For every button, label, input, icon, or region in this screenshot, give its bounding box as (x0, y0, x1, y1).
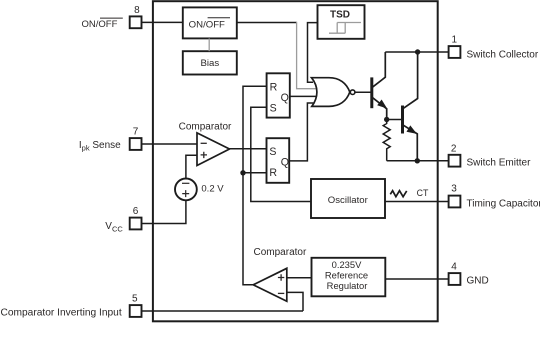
svg-text:5: 5 (132, 294, 138, 305)
Bias block (183, 51, 237, 74)
wire comparator2 plus to reference (287, 277, 312, 279)
Oscillator box (311, 179, 385, 218)
wire 0.2V to comparator plus (186, 155, 197, 178)
svg-text:Bias: Bias (200, 58, 219, 69)
Q1 emitter (373, 98, 387, 120)
0.2 V source V1 (175, 179, 197, 201)
svg-text:Q: Q (281, 92, 289, 104)
svg-text:ON/OFF: ON/OFF (82, 19, 118, 30)
wire reference to pin 4 (385, 278, 448, 280)
wire Q2 collector (403, 52, 417, 108)
wire TSD to gate (308, 23, 318, 83)
svg-text:R: R (270, 81, 278, 93)
svg-text:CT: CT (417, 188, 429, 198)
svg-text:Q: Q (281, 157, 289, 169)
svg-text:Switch Collector: Switch Collector (467, 49, 539, 60)
svg-text:3: 3 (451, 183, 457, 194)
wire oscillator to pin 3 (385, 201, 449, 203)
source plus (182, 190, 189, 197)
latch 1 (R Q S) box (267, 73, 290, 117)
wire pin8 to ON/OFF block (142, 21, 183, 23)
comparator 2 triangle (253, 268, 287, 301)
svg-text:4: 4 (451, 262, 457, 273)
svg-text:8: 8 (134, 5, 140, 16)
comparator2 plus (278, 274, 284, 280)
svg-text:S: S (269, 146, 276, 158)
overline over block OFF (208, 17, 230, 19)
pin 3 square (449, 196, 461, 208)
TSD hysteresis symbol (329, 23, 361, 34)
nor gate bubble (350, 90, 355, 95)
svg-text:Oscillator: Oscillator (328, 195, 369, 206)
wire R chain (243, 86, 267, 285)
wire gate output to Q1 base (355, 91, 372, 93)
pin 1 square (449, 46, 461, 58)
gray wire ON/OFF to gate (297, 22, 317, 89)
gray connector ON/OFF to Bias (208, 38, 210, 51)
svg-text:Regulator: Regulator (327, 280, 368, 291)
pin 7 square (130, 138, 142, 150)
wire comparator1 output to latch2 S (230, 148, 267, 150)
source minus (182, 182, 189, 184)
wire latch2 Q to gate (289, 103, 313, 161)
collector rail to pin 1 (385, 51, 448, 53)
Reference Regulator box (312, 258, 386, 297)
wire base Q2 (387, 119, 403, 121)
comparator1 minus (201, 142, 207, 144)
comparator1 plus (201, 152, 207, 158)
svg-text:0.2 V: 0.2 V (201, 184, 224, 195)
svg-text:ON/OFF: ON/OFF (189, 19, 225, 30)
overline over OFF (100, 17, 123, 19)
Q2 emitter arrow (407, 125, 417, 133)
Q1 collector (373, 52, 386, 87)
svg-text:Comparator Inverting Input: Comparator Inverting Input (1, 307, 122, 318)
TSD block (318, 5, 365, 39)
junction dot collector rail (415, 49, 420, 54)
svg-text:7: 7 (133, 127, 139, 138)
wire latch1 Q to gate (290, 95, 317, 97)
svg-text:R: R (269, 167, 277, 179)
emitter rail to pin 2 (387, 160, 449, 162)
svg-text:GND: GND (467, 276, 489, 287)
svg-text:TSD: TSD (330, 10, 350, 21)
pin 8 square (130, 16, 142, 28)
comparator 1 triangle (197, 133, 230, 166)
wire comparator2 minus to pin5 line (287, 292, 303, 311)
svg-text:Comparator: Comparator (254, 247, 307, 258)
pin 6 square (130, 218, 142, 230)
wire source to Vcc line (142, 200, 186, 223)
svg-text:Switch Emitter: Switch Emitter (467, 157, 532, 168)
svg-text:2: 2 (451, 143, 457, 154)
wire S chain latch1 to oscillator (251, 107, 311, 201)
CT waveform squiggle (390, 191, 406, 197)
latch 2 (S Q R) box (267, 138, 290, 183)
pin 4 square (449, 273, 461, 285)
junction dot Q1 emitter / resistor / Q2 base (384, 117, 389, 122)
wire R branch to latch2 (243, 172, 267, 174)
svg-text:1: 1 (452, 35, 458, 46)
svg-text:6: 6 (133, 206, 139, 217)
transistor Q1 base bar (370, 77, 373, 108)
Q1 emitter arrow (377, 100, 387, 109)
IC outline box (153, 1, 438, 321)
comparator2 minus (278, 292, 284, 294)
wire ON/OFF output (237, 22, 297, 24)
ON/OFF block (183, 7, 237, 38)
pin 5 square (130, 305, 142, 317)
Q2 emitter (403, 125, 417, 161)
svg-text:Reference: Reference (325, 270, 368, 281)
junction dot R chain (240, 170, 245, 175)
pin 2 square (449, 155, 461, 167)
junction dot emitter rail (415, 158, 420, 163)
resistor R1 (383, 120, 390, 161)
svg-text:Comparator: Comparator (179, 121, 232, 132)
wire pin5 to comparator2 minus (142, 310, 304, 312)
svg-text:Timing Capacitor: Timing Capacitor (467, 199, 540, 210)
svg-text:S: S (270, 102, 277, 114)
wire pin7 to comparator minus (142, 143, 198, 145)
transistor Q2 base bar (401, 106, 404, 134)
nor gate U1 (312, 78, 350, 107)
